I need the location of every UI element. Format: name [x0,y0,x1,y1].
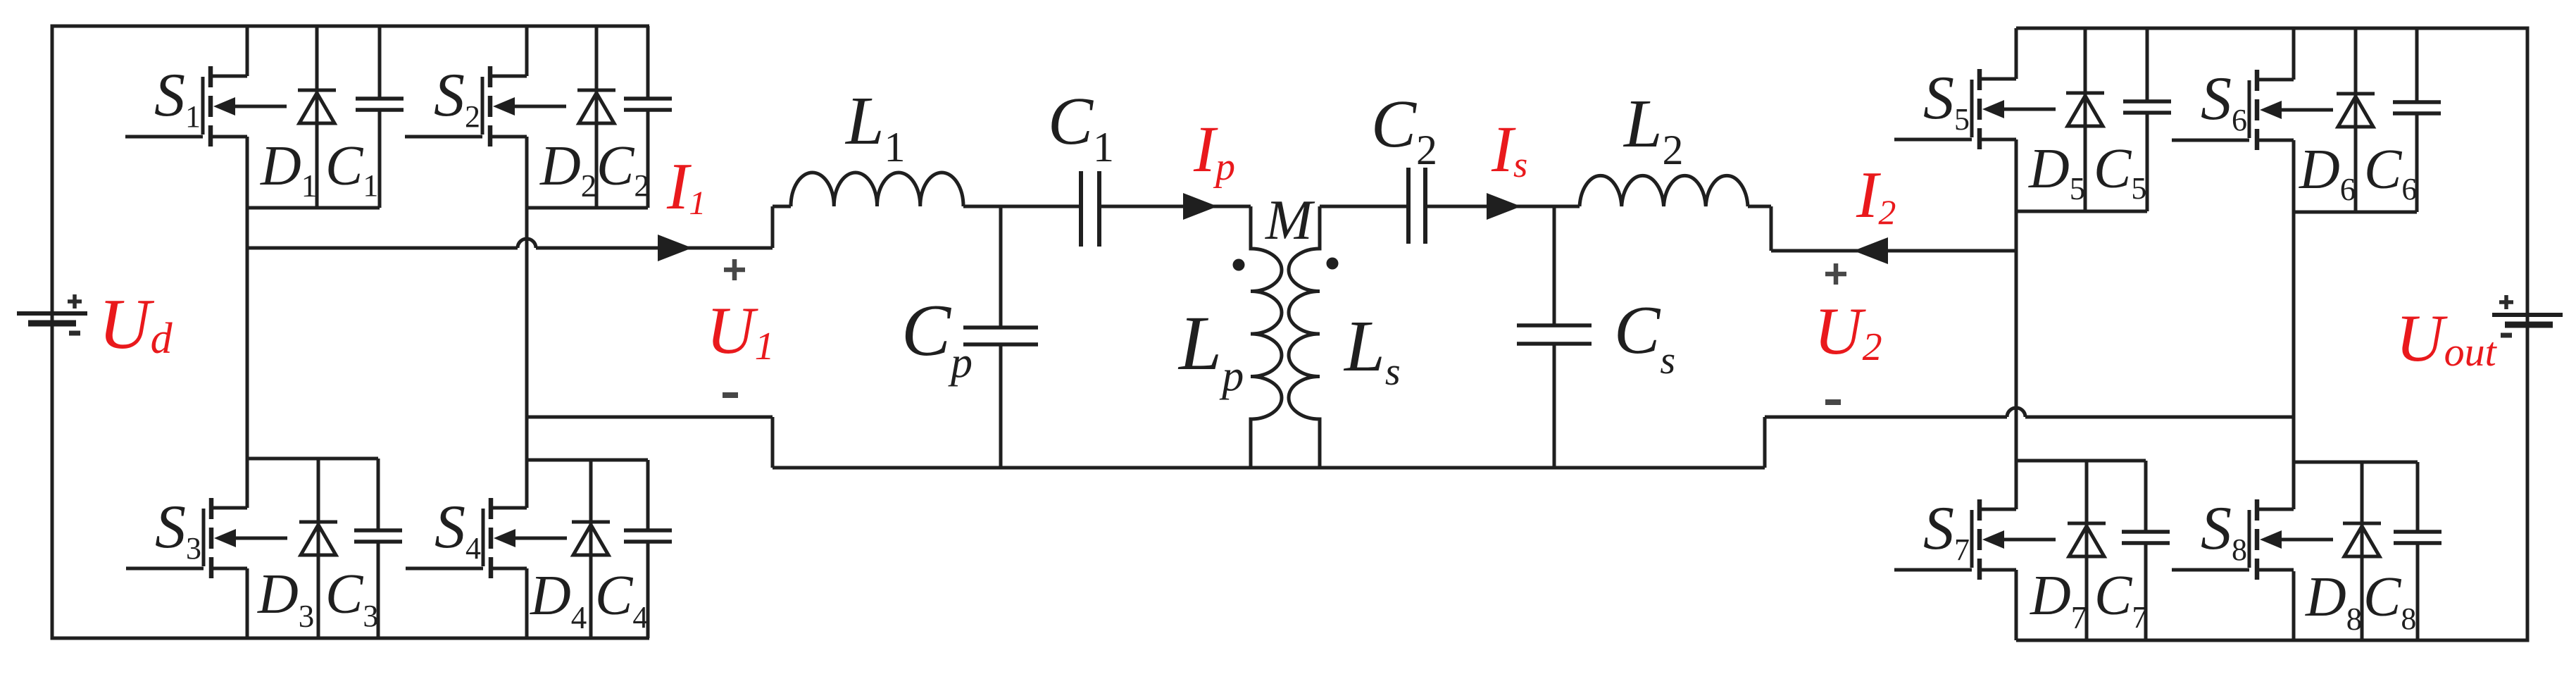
diode D2 [577,26,615,208]
capacitor C5 (snubber) [2123,28,2171,211]
wire S3 loop top [247,457,378,461]
wire S6 loop bottom [2294,211,2417,214]
transistor S3 [126,498,287,578]
node Is arrow [1487,193,1521,220]
wire S8 loop top [2294,461,2418,464]
wire left outer [51,25,54,640]
capacitor C6 (snubber) [2393,28,2441,212]
wire S7 loop top [2016,459,2146,463]
wire S4 loop top [527,459,648,462]
capacitor C1 (series) [1081,171,1099,247]
wire leg A (S1-S3 leg) [246,26,249,638]
wire S5 loop bottom [2016,210,2147,213]
transistor S2 [405,66,566,147]
wire U2+ rail [1771,249,2016,253]
node U2 plus [1825,263,1846,285]
node I2 arrow [1853,237,1888,264]
capacitor C7 (snubber) [2122,461,2170,640]
wire bottom rail left [52,637,649,640]
node U1 minus [723,392,738,398]
inductor L1 [791,173,963,206]
wire U2- rail [1765,408,2294,468]
battery Ud [17,294,87,333]
node secondary dot [1327,258,1339,270]
wire secondary to C2 [1320,205,1408,208]
diode D1 [298,26,336,208]
diode D3 [299,459,337,638]
capacitor C3 (snubber) [354,459,402,638]
transistor S1 [125,66,287,147]
capacitor C8 (snubber) [2394,462,2441,640]
diode D5 [2066,28,2104,211]
wire leg D (S6-S8 leg) [2292,28,2296,640]
wire S1 loop bottom [247,206,380,210]
diode D6 [2337,28,2375,212]
wire S2 loop bottom [527,206,648,210]
wire U1+ rail [247,206,773,248]
diode D8 [2343,462,2381,640]
node I1 arrow [658,235,692,261]
node U2 minus [1825,399,1841,405]
wire L2 to U2 [1748,206,1771,251]
transistor S4 [406,498,567,578]
capacitor C1 (snubber) [356,26,404,208]
inductor Ls (transformer secondary) [1289,206,1320,468]
wire tank bottom rail [773,466,1765,470]
capacitor C2 (series) [1408,168,1425,244]
svg-text:M: M [1265,189,1315,251]
capacitor C4 (snubber) [624,460,672,638]
battery Uout [2492,295,2563,335]
transistor S5 [1894,69,2056,149]
transistor S7 [1894,499,2056,580]
wire top rail left [52,25,649,28]
wire C1 to primary [1099,205,1251,208]
capacitor Cs [1517,206,1592,468]
wire bottom rail right [2016,639,2527,642]
wire leg B (S2-S4 leg) [525,26,529,638]
diode D4 [572,460,610,638]
inductor Lp (transformer primary) [1251,206,1282,468]
transistor S8 [2172,499,2333,580]
node Ip arrow [1183,193,1218,220]
wire leg C (S5-S7 leg) [2015,28,2018,640]
wire tank top left [773,205,791,208]
wire L1 to C1 [963,205,1081,208]
node primary dot [1233,259,1245,271]
capacitor C2 (snubber) [624,26,672,208]
capacitor Cp [963,206,1038,468]
wire C2 to node [1425,205,1580,208]
node U1 plus [724,259,745,280]
diode D7 [2068,461,2106,640]
wire U1- rail [527,417,773,468]
wire top rail right [2016,27,2527,30]
inductor L2 [1580,175,1748,206]
wire right outer [2526,27,2530,642]
transistor S6 [2172,70,2333,150]
